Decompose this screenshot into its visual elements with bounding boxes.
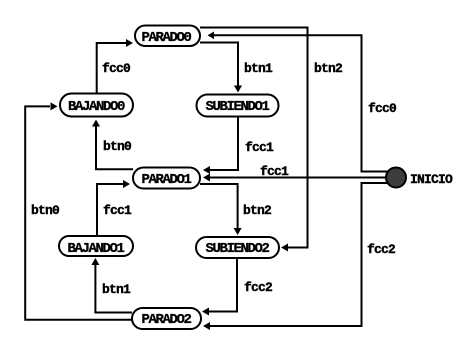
label btn1 bottom <box>102 283 130 296</box>
wire fcc2 INICIO to PARADO2 <box>203 183 392 330</box>
wire fcc0 INICIO to PARADO0 <box>208 32 393 172</box>
wire btn2 PARADO0 to SUBIENDO2 <box>200 28 308 252</box>
state PARADO0 shape <box>135 26 200 47</box>
state SUBIENDO1 shape <box>197 95 279 117</box>
label fcc0 left <box>102 62 130 75</box>
label btn0 far-left <box>31 204 59 217</box>
state SUBIENDO1 label <box>206 100 269 114</box>
label fcc1 left <box>103 204 131 217</box>
wire btn0 PARADO2 to BAJANDO0 <box>25 102 132 319</box>
state BAJANDO1 shape <box>59 236 133 256</box>
state PARADO0 label <box>142 31 191 45</box>
state PARADO2 shape <box>132 308 201 329</box>
state PARADO1 label <box>142 173 191 187</box>
label btn0 mid <box>103 140 131 153</box>
wire btn0 PARADO1 to BAJANDO0 <box>92 120 133 170</box>
state BAJANDO0 shape <box>60 94 133 117</box>
state PARADO1 shape <box>133 168 200 189</box>
state SUBIENDO2 shape <box>196 237 279 258</box>
wire fcc1 INICIO to PARADO1 <box>203 174 392 182</box>
state BAJANDO1 label <box>68 242 124 256</box>
wire fcc2 SUBIENDO2 to PARADO2 <box>202 258 237 316</box>
state PARADO2 label <box>142 313 191 327</box>
wire btn1 PARADO0 to SUBIENDO1 <box>200 43 242 93</box>
wire btn2 PARADO1 to SUBIENDO2 <box>200 184 242 235</box>
label fcc0 right <box>368 102 396 115</box>
wire fcc1 BAJANDO1 to PARADO1 <box>97 180 130 236</box>
node INICIO circle <box>386 168 406 188</box>
label fcc2 bottom <box>244 281 272 294</box>
label btn2 top <box>314 62 342 75</box>
label INICIO <box>410 173 452 186</box>
label fcc1 mid <box>245 141 273 154</box>
state BAJANDO0 label <box>68 100 124 114</box>
label fcc1 inicio <box>260 165 288 178</box>
wire fcc0 BAJANDO0 to PARADO0 <box>97 39 133 94</box>
label btn1 top <box>244 62 272 75</box>
label fcc2 right <box>367 243 395 256</box>
label btn2 mid <box>243 204 271 217</box>
wire btn1 PARADO2 to BAJANDO1 <box>91 258 132 313</box>
wire fcc1 SUBIENDO1 to PARADO1 <box>203 117 238 175</box>
state SUBIENDO2 label <box>206 242 269 256</box>
